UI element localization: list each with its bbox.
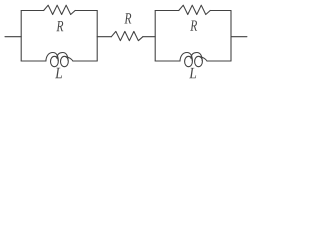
wire right block top rail right bbox=[210, 10, 231, 12]
wire left block bottom rail left bbox=[21, 60, 46, 62]
wire right block left vertical bbox=[154, 11, 156, 62]
wire right block bottom rail left bbox=[155, 60, 180, 62]
wire right stub bbox=[231, 36, 247, 38]
wire right block right vertical bbox=[230, 11, 232, 62]
inductor L (right block) bbox=[180, 53, 207, 67]
label L (right block) bbox=[189, 68, 196, 78]
wire left stub bbox=[5, 36, 21, 38]
resistor R (right block) bbox=[179, 5, 211, 14]
wire mid left bbox=[97, 36, 111, 38]
inductor L (left block) bbox=[46, 53, 73, 67]
wire left block top rail left bbox=[21, 10, 43, 12]
wire left block left vertical bbox=[20, 11, 22, 62]
resistor R (left block) bbox=[44, 5, 76, 14]
label R (middle series) bbox=[124, 13, 131, 23]
wire left block right vertical bbox=[96, 11, 98, 62]
resistor R (middle series) bbox=[111, 31, 143, 40]
wire right block top rail left bbox=[155, 10, 179, 12]
wire mid right bbox=[143, 36, 155, 38]
wire left block bottom rail right bbox=[73, 60, 97, 62]
label R (right block) bbox=[190, 21, 197, 31]
label R (left block) bbox=[56, 21, 63, 31]
wire left block top rail right bbox=[75, 10, 97, 12]
label L (left block) bbox=[55, 68, 62, 78]
wire right block bottom rail right bbox=[207, 60, 231, 62]
